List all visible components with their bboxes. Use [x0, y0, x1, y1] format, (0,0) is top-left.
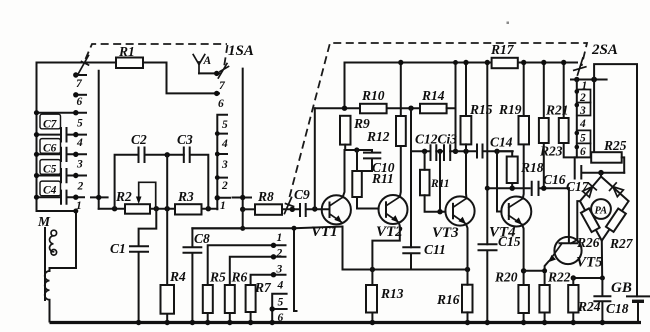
- capacitor C2: [115, 148, 184, 209]
- resistor R11: [352, 171, 362, 197]
- wire R8 to C9: [282, 208, 300, 210]
- svg-text:R19: R19: [498, 102, 522, 117]
- svg-text:4: 4: [76, 137, 83, 149]
- svg-text:3: 3: [579, 105, 586, 117]
- resistor R19: [519, 116, 530, 144]
- wire VT4 emitter to R22 link: [524, 270, 545, 272]
- svg-text:C6: C6: [43, 143, 57, 155]
- svg-text:C8: C8: [194, 231, 210, 246]
- wire VT4 emitter down: [522, 225, 524, 285]
- svg-text:1: 1: [220, 200, 226, 212]
- resistor R2 potentiometer: [125, 204, 150, 214]
- svg-text:R16: R16: [436, 292, 460, 307]
- svg-text:C18: C18: [606, 301, 629, 316]
- transistor VT4: [489, 197, 531, 241]
- resistor R18: [507, 157, 518, 184]
- wire R14 node down: [455, 108, 457, 151]
- transistor VT5: [548, 188, 603, 270]
- svg-text:R8: R8: [257, 189, 274, 204]
- svg-text:R3: R3: [177, 189, 194, 204]
- wire M to bottom bus: [49, 300, 51, 322]
- capacitor C18: [594, 278, 610, 322]
- wire top-left horizontal to R1: [37, 62, 117, 64]
- wire emitter rail VT1: [192, 227, 342, 312]
- bridge diamond: [580, 173, 629, 241]
- svg-text:VT3: VT3: [432, 225, 459, 241]
- svg-text:R1: R1: [118, 44, 135, 59]
- wire oscillator row: [99, 208, 218, 210]
- svg-text:C9: C9: [294, 187, 310, 202]
- wire 1SA.2 output column: [233, 69, 252, 210]
- svg-text:4: 4: [277, 280, 284, 292]
- svg-text:R20: R20: [494, 270, 518, 285]
- capacitor C16: [532, 182, 569, 195]
- capacitor C11: [403, 247, 419, 269]
- antenna A: [193, 55, 205, 74]
- wire meter output row: [573, 277, 602, 279]
- switch 2SA contact rail: [576, 80, 578, 158]
- resistor R17: [492, 58, 518, 68]
- bottom bus: [50, 321, 642, 324]
- diode VD2: [610, 183, 624, 197]
- svg-text:Ci3: Ci3: [438, 132, 458, 147]
- wire VT1 collector node row: [345, 149, 373, 151]
- wire VT3 emitter down: [466, 224, 468, 270]
- wire VT5 emitter to R22: [545, 262, 549, 286]
- resistor R14: [420, 104, 447, 114]
- switch 1SA.2 arm: [218, 64, 228, 79]
- wire R12 top to bus: [400, 63, 402, 117]
- resistor R23: [539, 118, 549, 143]
- svg-text:R23: R23: [539, 144, 563, 159]
- node bridge top: [598, 170, 604, 176]
- node C2 drop: [112, 206, 117, 211]
- meter PA: [591, 199, 611, 219]
- capacitor C9: [300, 204, 322, 216]
- capacitor C6: [34, 137, 86, 161]
- transformer M core: [44, 228, 46, 300]
- node R16 emitter VT3: [465, 267, 470, 272]
- capacitor C4: [34, 181, 84, 204]
- capacitor C15: [479, 244, 497, 321]
- resistor R24: [568, 285, 578, 313]
- svg-text:R13: R13: [380, 286, 404, 301]
- svg-text:M: M: [37, 214, 51, 229]
- wire VT2 collector to R12: [400, 146, 401, 197]
- wire VT4 base riser: [497, 151, 501, 211]
- node wiper C1: [154, 206, 159, 211]
- svg-text:C7: C7: [43, 119, 58, 131]
- capacitor C10: [362, 150, 381, 171]
- svg-text:R6: R6: [231, 270, 248, 285]
- svg-text:C5: C5: [43, 164, 57, 176]
- capacitor C14: [477, 145, 483, 158]
- svg-text:5: 5: [77, 118, 83, 130]
- svg-text:C1: C1: [110, 241, 126, 256]
- wire VT1 base row: [315, 107, 420, 109]
- capacitor C7: [34, 114, 86, 141]
- svg-text:3: 3: [276, 264, 283, 276]
- wire R14 right up to bus: [447, 63, 456, 109]
- switch 1SA.2 contact ladder: [217, 115, 230, 210]
- node C2-C3 midpoint: [165, 152, 170, 157]
- resistor R7: [246, 285, 256, 312]
- svg-text:C16: C16: [543, 172, 566, 187]
- svg-text:VT5: VT5: [576, 255, 603, 271]
- svg-text:C2: C2: [131, 132, 147, 147]
- wire base bias row VT4: [487, 187, 529, 189]
- wire bridge left to VT5 collector: [577, 201, 580, 240]
- wire bus to contact row: [37, 112, 87, 114]
- svg-text:7: 7: [76, 78, 83, 90]
- node contact7 antenna section: [214, 71, 219, 76]
- top supply bus: [345, 62, 578, 64]
- resistor R41 bias VT3: [420, 170, 430, 196]
- svg-text:2SA: 2SA: [591, 42, 618, 58]
- svg-text:5: 5: [222, 119, 228, 131]
- transistor VT1: [311, 195, 351, 240]
- resistor R3: [175, 204, 202, 214]
- node VT3 collector R15: [463, 149, 468, 154]
- diode VD1: [582, 183, 596, 197]
- resistor R4: [166, 155, 168, 322]
- connector pins 4 5 6 bracket: [272, 294, 286, 322]
- wire antenna to contact 7: [199, 72, 220, 74]
- svg-text:3: 3: [76, 159, 83, 171]
- switch 2SA boxed contact 6: [590, 143, 592, 157]
- svg-text:C11: C11: [424, 242, 446, 257]
- wire VT4 collector to R19: [522, 144, 525, 198]
- resistor R26 diagonal: [581, 208, 600, 232]
- wire C12C13 mid riser to VT3 base: [439, 151, 441, 211]
- svg-text:PA: PA: [595, 206, 608, 217]
- switch 2SA boxed contact 5: [577, 130, 591, 143]
- svg-text:4: 4: [221, 138, 228, 150]
- svg-text:4: 4: [579, 118, 586, 130]
- svg-text:R17: R17: [490, 42, 515, 57]
- svg-text:1SA: 1SA: [228, 43, 254, 59]
- resistor R10: [360, 104, 387, 114]
- connector pin 1: [208, 245, 286, 285]
- capacitor C3: [184, 148, 209, 209]
- resistor R9: [340, 116, 351, 145]
- switch 1SA.1 arm: [77, 56, 89, 77]
- node R4 drop: [165, 206, 170, 211]
- wire supply drop to C15: [486, 63, 488, 245]
- capacitor C13: [444, 145, 450, 160]
- wire VT3 collector riser: [465, 151, 468, 198]
- svg-text:C3: C3: [177, 132, 193, 147]
- resistor R13: [366, 285, 377, 313]
- resistor R15: [461, 116, 472, 144]
- dashed link 2SA: [290, 43, 588, 197]
- svg-text:6: 6: [278, 312, 284, 324]
- svg-text:R2: R2: [115, 189, 132, 204]
- wire VT1 emitter down: [342, 227, 344, 270]
- transformer M lower winding: [49, 268, 51, 271]
- connector pin 3: [251, 275, 286, 285]
- svg-text:2: 2: [77, 181, 84, 193]
- resistor R20: [518, 285, 529, 313]
- wire R8 input row: [243, 208, 255, 210]
- wire emitter common row: [343, 269, 468, 271]
- svg-text:R11: R11: [371, 171, 394, 186]
- resistor R22: [539, 285, 549, 313]
- wire power corner to rail: [594, 64, 637, 296]
- wire left bus vertical: [36, 63, 38, 212]
- svg-text:6: 6: [77, 96, 83, 108]
- capacitor C8: [184, 228, 202, 321]
- wire top bus left corner down: [344, 63, 346, 109]
- wire R25 right to bridge top: [622, 157, 625, 172]
- svg-text:5: 5: [580, 133, 586, 145]
- capacitor C1: [130, 209, 156, 322]
- wire long riser R10 node: [410, 108, 412, 247]
- wire VT1 collector to R9: [343, 150, 345, 197]
- resistor R6: [225, 285, 235, 313]
- resistor R1: [116, 58, 143, 69]
- svg-text:C12: C12: [415, 132, 438, 147]
- contact stub 7 left bank: [76, 74, 86, 76]
- wire VT2 emitter to R13: [372, 223, 399, 286]
- transistor VT3: [432, 196, 475, 241]
- switch 2SA.2 arm at C9: [285, 198, 294, 214]
- svg-text:6: 6: [580, 146, 586, 158]
- svg-text:C4: C4: [43, 185, 57, 197]
- node R13: [370, 267, 375, 272]
- svg-text:R4: R4: [169, 269, 186, 284]
- svg-text:R5: R5: [209, 270, 226, 285]
- node R41 top: [422, 149, 427, 154]
- R2 wiper arrow: [139, 182, 156, 208]
- svg-text:R21: R21: [545, 103, 569, 118]
- wire C8 node: [192, 209, 242, 228]
- resistor R16: [462, 285, 473, 313]
- svg-text:3: 3: [221, 159, 228, 171]
- svg-text:R12: R12: [366, 129, 390, 144]
- svg-text:R27: R27: [609, 236, 634, 251]
- node C3 drop: [206, 206, 211, 211]
- transformer M upper winding: [50, 236, 54, 252]
- transistor VT2: [376, 195, 408, 240]
- node C14 right: [494, 149, 499, 154]
- wires and parts injected below: [507, 22, 510, 25]
- node VT1 base: [312, 206, 317, 211]
- switch 2SA arm: [574, 58, 586, 75]
- wire bus corner to M: [37, 211, 77, 268]
- svg-text:R15: R15: [469, 102, 493, 117]
- resistor R25: [591, 152, 622, 163]
- capacitor C5: [34, 159, 86, 183]
- resistor R27 diagonal: [606, 209, 626, 232]
- wire bridge bottom down: [601, 241, 603, 278]
- svg-text:R22: R22: [547, 270, 571, 285]
- svg-text:2: 2: [276, 248, 283, 260]
- resistor R5: [203, 285, 213, 313]
- wire base chain row: [411, 150, 513, 152]
- node contact6 antenna section: [214, 91, 219, 96]
- svg-text:VT4: VT4: [489, 225, 516, 241]
- svg-text:R7: R7: [254, 280, 272, 295]
- svg-text:1: 1: [277, 232, 283, 244]
- resistor R8: [255, 204, 282, 215]
- svg-text:GB: GB: [611, 280, 632, 296]
- switch 2SA boxed contact 2: [577, 90, 591, 103]
- capacitor C17: [575, 157, 625, 178]
- svg-text:R25: R25: [603, 138, 627, 153]
- svg-text:2: 2: [221, 180, 228, 192]
- node C12-C13 mid: [437, 149, 442, 154]
- svg-text:R18: R18: [520, 160, 544, 175]
- switch 2SA boxed contact 3: [577, 103, 591, 116]
- dashed link 1SA: [86, 44, 228, 67]
- svg-text:A: A: [203, 55, 212, 67]
- resistor R21: [559, 118, 569, 143]
- switch 2SA contact 1: [571, 79, 607, 81]
- wire VT1 base riser: [314, 108, 316, 209]
- contact 6 left bank: [76, 94, 86, 96]
- wire 1SA.1 arm output line: [91, 71, 108, 209]
- svg-text:5: 5: [278, 297, 284, 309]
- svg-text:C14: C14: [490, 135, 513, 150]
- svg-text:2: 2: [579, 92, 586, 104]
- svg-text:VT1: VT1: [311, 224, 338, 240]
- svg-text:R14: R14: [421, 88, 445, 103]
- svg-text:6: 6: [218, 98, 224, 110]
- capacitor C12: [431, 145, 437, 160]
- wire R1 right to antenna contact row 6: [143, 63, 219, 94]
- svg-text:7: 7: [219, 80, 226, 92]
- svg-text:R10: R10: [361, 88, 385, 103]
- resistor R12: [396, 116, 406, 146]
- connector pin 2: [230, 257, 286, 285]
